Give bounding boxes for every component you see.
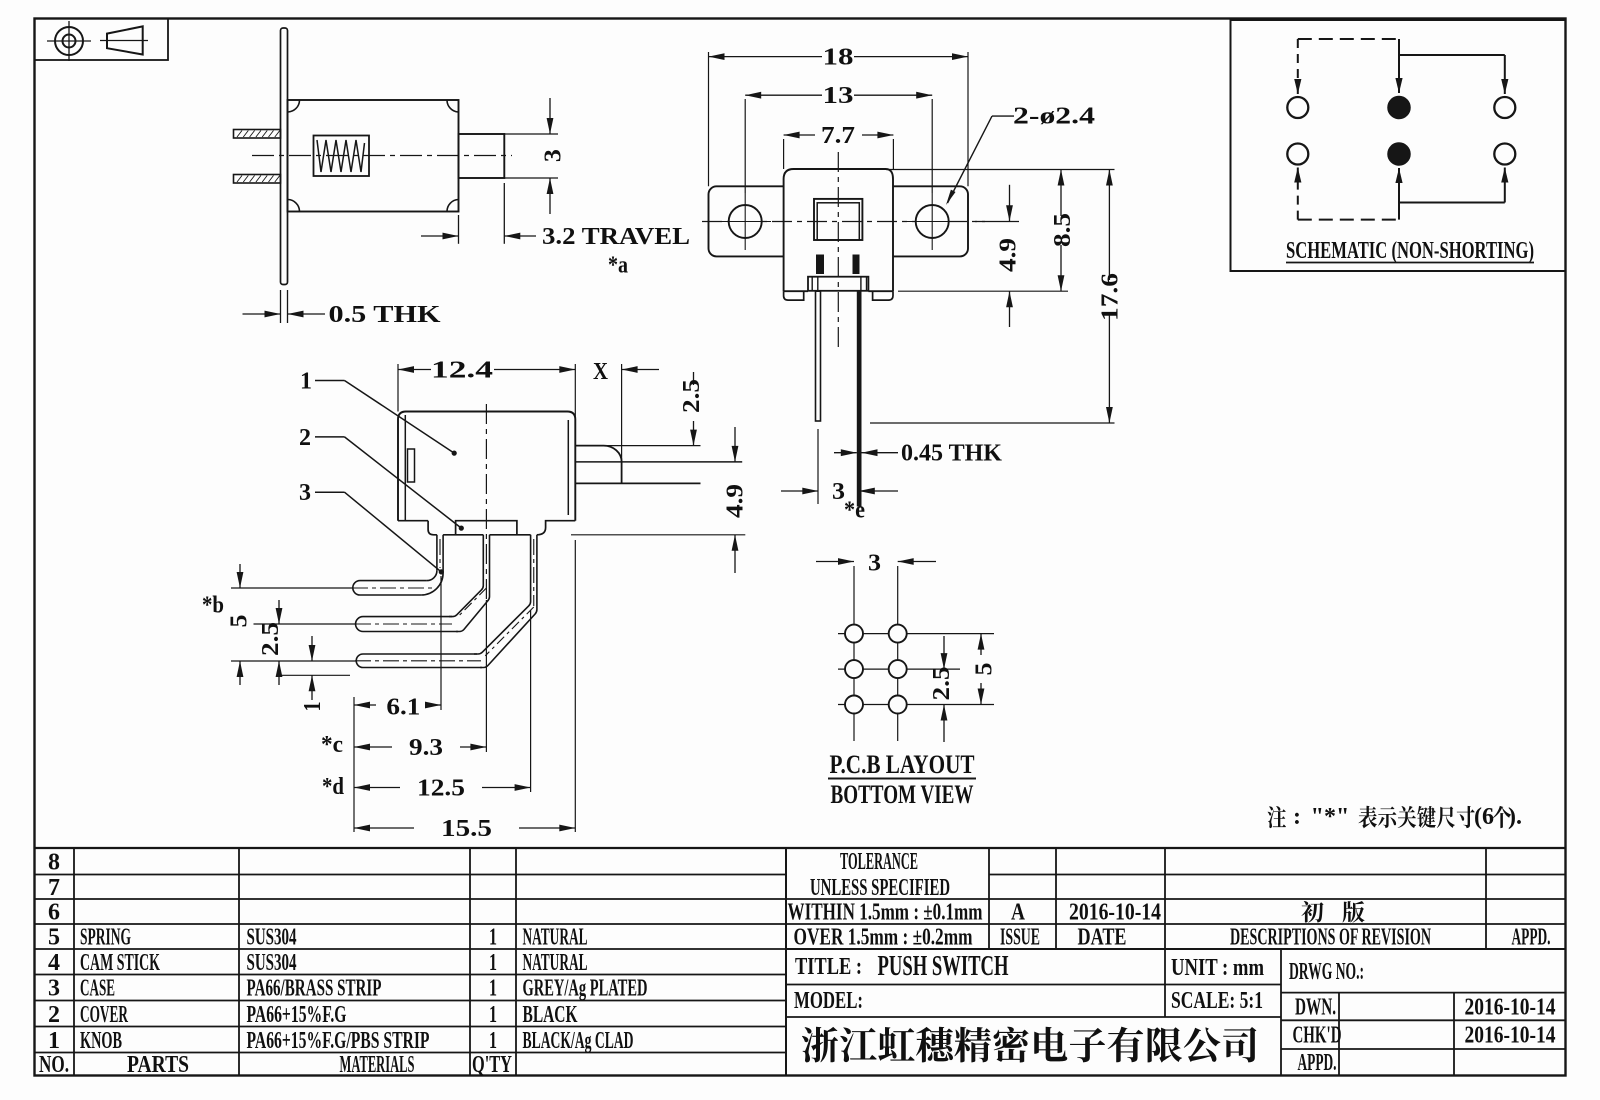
svg-text:WITHIN 1.5mm : ±0.1mm: WITHIN 1.5mm : ±0.1mm	[788, 900, 983, 926]
front view collar	[808, 277, 868, 291]
projection symbol cone	[107, 26, 143, 54]
svg-text:4.9: 4.9	[996, 238, 1022, 272]
svg-text:PA66+15%F.G: PA66+15%F.G	[247, 1002, 347, 1028]
svg-text:A: A	[1011, 900, 1026, 926]
pcb layout hole grid verticals	[853, 566, 855, 741]
svg-text:6: 6	[48, 900, 60, 926]
svg-text:GREY/Ag PLATED: GREY/Ag PLATED	[523, 976, 648, 1002]
svg-text:CAM STICK: CAM STICK	[80, 950, 160, 976]
svg-text:13: 13	[823, 83, 854, 109]
svg-text:ISSUE: ISSUE	[1000, 925, 1040, 951]
dimension 12.5	[530, 610, 532, 792]
schematic solid frame top	[1398, 39, 1400, 55]
table outer horizontals	[35, 847, 1566, 849]
dimension 13	[744, 99, 746, 193]
svg-text:SCALE: 5:1: SCALE: 5:1	[1171, 988, 1263, 1014]
svg-text:5: 5	[972, 663, 998, 676]
svg-text:0.45 THK: 0.45 THK	[901, 441, 1002, 467]
schematic pole terminals open	[1287, 97, 1308, 118]
svg-text:17.6: 17.6	[1097, 273, 1123, 321]
svg-text:2016-10-14: 2016-10-14	[1465, 995, 1556, 1021]
svg-text:15.5: 15.5	[441, 816, 492, 842]
dimension 4.9 middle	[734, 427, 736, 462]
svg-text:3: 3	[48, 976, 60, 1002]
svg-text:KNOB: KNOB	[80, 1028, 122, 1054]
side view terminal pin upper	[234, 130, 281, 139]
spring coil	[317, 140, 365, 172]
side view body	[288, 100, 459, 212]
svg-text:UNIT : mm: UNIT : mm	[1171, 955, 1264, 981]
svg-text:*a: *a	[608, 253, 628, 279]
svg-text:1: 1	[489, 950, 497, 976]
side view centerline	[252, 155, 512, 157]
pin 3 centerline	[355, 660, 481, 662]
svg-text:2: 2	[48, 1002, 60, 1028]
svg-text:3: 3	[868, 551, 881, 577]
middle view bottom edge	[398, 520, 428, 522]
svg-text:NATURAL: NATURAL	[523, 925, 588, 951]
svg-text:*d: *d	[322, 774, 345, 800]
svg-text:1: 1	[489, 925, 497, 951]
spring box	[314, 136, 370, 177]
front view vertical centerline	[837, 152, 839, 352]
svg-text:8: 8	[48, 849, 60, 875]
pcb row extension lines	[914, 633, 994, 635]
svg-text:PARTS: PARTS	[127, 1052, 189, 1078]
middle view pin 2	[449, 535, 483, 617]
svg-text:4: 4	[48, 950, 60, 976]
middle view body inner right edge	[567, 420, 569, 515]
svg-text:"*": "*"	[1311, 804, 1350, 830]
dimension *b 5 2.5 1 left stack	[231, 587, 352, 589]
front view flange	[709, 186, 969, 256]
svg-text:APPD.: APPD.	[1298, 1050, 1337, 1076]
schematic box	[1231, 20, 1566, 271]
side view terminal pin lower	[234, 175, 281, 184]
middle view vertical centerline	[485, 404, 487, 600]
svg-text::: :	[1293, 804, 1301, 830]
table left part row lines	[35, 874, 787, 876]
svg-text:2016-10-14: 2016-10-14	[1465, 1023, 1556, 1049]
svg-text:NO.: NO.	[39, 1052, 69, 1078]
svg-text:NATURAL: NATURAL	[523, 950, 588, 976]
svg-text:DWN.: DWN.	[1295, 995, 1336, 1021]
dimension 0.5 THK	[280, 290, 282, 323]
mounting hole left	[729, 205, 762, 238]
pcb layout holes	[845, 625, 863, 643]
schematic common terminals filled	[1388, 97, 1410, 119]
side view body corner arcs	[288, 101, 300, 113]
svg-text:1: 1	[48, 1028, 60, 1054]
dimension 12.4 and X	[397, 364, 399, 412]
front view left pin	[816, 291, 821, 421]
middle view pin 1	[436, 535, 438, 571]
front view contact strips	[816, 255, 824, 275]
svg-text:TITLE :: TITLE :	[795, 954, 862, 980]
schematic solid frame bottom	[1398, 203, 1400, 220]
svg-text:1: 1	[300, 369, 312, 395]
svg-text:(6: (6	[1474, 804, 1494, 830]
svg-text:5: 5	[48, 925, 60, 951]
front view flange centerline	[702, 221, 985, 223]
svg-text:DRWG NO.:: DRWG NO.:	[1289, 959, 1364, 985]
table left part column lines	[73, 848, 75, 1076]
svg-text:COVER: COVER	[80, 1002, 128, 1028]
note key dimensions	[1268, 806, 1286, 828]
dimension 6.1	[353, 697, 355, 832]
svg-text:12.4: 12.4	[431, 358, 493, 384]
svg-text:*c: *c	[321, 732, 343, 758]
dimension 3 shaft height	[504, 133, 558, 135]
svg-text:MODEL:: MODEL:	[794, 988, 863, 1014]
svg-text:).: ).	[1508, 804, 1522, 830]
svg-text:7.7: 7.7	[821, 123, 855, 149]
middle view bottom ext line	[571, 534, 745, 536]
dimension 4.9 right	[975, 221, 1019, 223]
pin 1 centerline	[352, 587, 432, 589]
svg-text:0.5 THK: 0.5 THK	[329, 302, 441, 328]
front view knob	[814, 199, 862, 240]
svg-text:4.9: 4.9	[723, 484, 749, 518]
third-angle projection symbol box	[35, 19, 169, 61]
dimension 9.3	[485, 600, 487, 752]
svg-text:PA66+15%F.G/PBS STRIP: PA66+15%F.G/PBS STRIP	[247, 1028, 430, 1054]
svg-text:BLACK: BLACK	[523, 1002, 578, 1028]
svg-text:9.3: 9.3	[409, 735, 443, 761]
svg-text:*b: *b	[202, 593, 224, 619]
svg-text:BLACK/Ag CLAD: BLACK/Ag CLAD	[523, 1028, 634, 1054]
svg-text:2.5: 2.5	[258, 622, 284, 656]
svg-text:2016-10-14: 2016-10-14	[1069, 900, 1161, 926]
front view foot left	[784, 291, 804, 300]
svg-text:MATERIALS: MATERIALS	[340, 1052, 415, 1078]
dimension 0.45 THK	[834, 452, 857, 454]
svg-text:7: 7	[48, 875, 60, 901]
middle view latch window	[408, 449, 415, 482]
schematic right column arrows	[1504, 55, 1506, 80]
dimension 7.7	[783, 139, 785, 169]
svg-text:DATE: DATE	[1078, 925, 1127, 951]
svg-text:6.1: 6.1	[386, 695, 420, 721]
svg-text:OVER 1.5mm : ±0.2mm: OVER 1.5mm : ±0.2mm	[794, 925, 973, 951]
svg-text:X: X	[593, 359, 609, 385]
svg-text:PUSH SWITCH: PUSH SWITCH	[878, 951, 1009, 982]
front view foot right	[873, 291, 893, 300]
svg-text:BOTTOM VIEW: BOTTOM VIEW	[831, 780, 974, 809]
projection symbol circle	[55, 27, 83, 55]
side view mounting plate	[281, 28, 288, 285]
pin 2 centerline	[355, 623, 452, 625]
svg-text:2.5: 2.5	[929, 667, 955, 701]
svg-text:18: 18	[823, 45, 854, 71]
schematic dashed frame bottom	[1298, 219, 1399, 221]
svg-text:8.5: 8.5	[1050, 213, 1076, 247]
svg-text:3: 3	[299, 480, 311, 506]
dimension 3 pin spacing	[781, 490, 818, 492]
company name	[802, 1027, 838, 1063]
svg-text:P.C.B LAYOUT: P.C.B LAYOUT	[830, 750, 975, 779]
middle view body inner left edge	[404, 415, 406, 520]
dimension 17.6	[870, 422, 1115, 424]
svg-text:*e: *e	[844, 498, 865, 524]
svg-text:1: 1	[489, 1028, 497, 1054]
svg-text:CASE: CASE	[80, 976, 115, 1002]
schematic middle column arrows	[1398, 55, 1400, 80]
svg-text:SUS304: SUS304	[247, 950, 297, 976]
svg-text:1: 1	[489, 1002, 497, 1028]
svg-text:2: 2	[299, 425, 311, 451]
svg-text:CHK'D: CHK'D	[1293, 1023, 1342, 1049]
table right row lines	[989, 874, 1566, 876]
svg-text:2-ø2.4: 2-ø2.4	[1013, 104, 1095, 130]
dimension 18	[708, 52, 710, 186]
svg-text:PA66/BRASS STRIP: PA66/BRASS STRIP	[247, 976, 382, 1002]
middle view pin 3	[474, 535, 531, 654]
svg-text:Q'TY: Q'TY	[472, 1052, 512, 1078]
svg-text:UNLESS SPECIFIED: UNLESS SPECIFIED	[810, 875, 950, 901]
pcb dimension 2.5	[943, 636, 945, 669]
svg-text:1: 1	[300, 702, 326, 712]
table right column lines	[988, 848, 990, 949]
label 2-dia2.4 with leader	[992, 115, 1014, 117]
schematic dashed frame top	[1298, 38, 1399, 40]
svg-text:3: 3	[541, 149, 567, 162]
dimension 15.5	[574, 540, 576, 832]
middle view body outline	[398, 412, 575, 521]
front view case bottom edge	[784, 290, 808, 292]
dimension 2.5 stem	[693, 372, 695, 385]
svg-text:DESCRIPTIONS OF REVISION: DESCRIPTIONS OF REVISION	[1230, 925, 1431, 951]
svg-text:2.5: 2.5	[679, 379, 705, 413]
svg-text:SUS304: SUS304	[247, 925, 297, 951]
pcb dimension 3	[816, 561, 854, 563]
schematic left column arrows	[1297, 39, 1299, 80]
front view case	[784, 169, 893, 291]
dimension 8.5	[886, 169, 1115, 171]
svg-text:5: 5	[227, 615, 253, 628]
svg-text:12.5: 12.5	[417, 776, 465, 802]
svg-text:TOLERANCE: TOLERANCE	[840, 849, 918, 875]
svg-text:1: 1	[489, 976, 497, 1002]
svg-text:SPRING: SPRING	[80, 925, 131, 951]
front view right pin	[857, 291, 862, 506]
pcb dimension 5	[980, 634, 982, 655]
svg-text:SCHEMATIC (NON-SHORTING): SCHEMATIC (NON-SHORTING)	[1286, 238, 1534, 264]
middle view stem	[575, 446, 621, 484]
svg-text:APPD.: APPD.	[1512, 925, 1551, 951]
svg-text:3.2 TRAVEL: 3.2 TRAVEL	[542, 224, 690, 250]
mounting hole right	[916, 205, 949, 238]
pcb layout hole rows	[838, 633, 914, 635]
side view shaft	[459, 134, 505, 178]
dimension 3.2 TRAVEL	[503, 183, 505, 244]
